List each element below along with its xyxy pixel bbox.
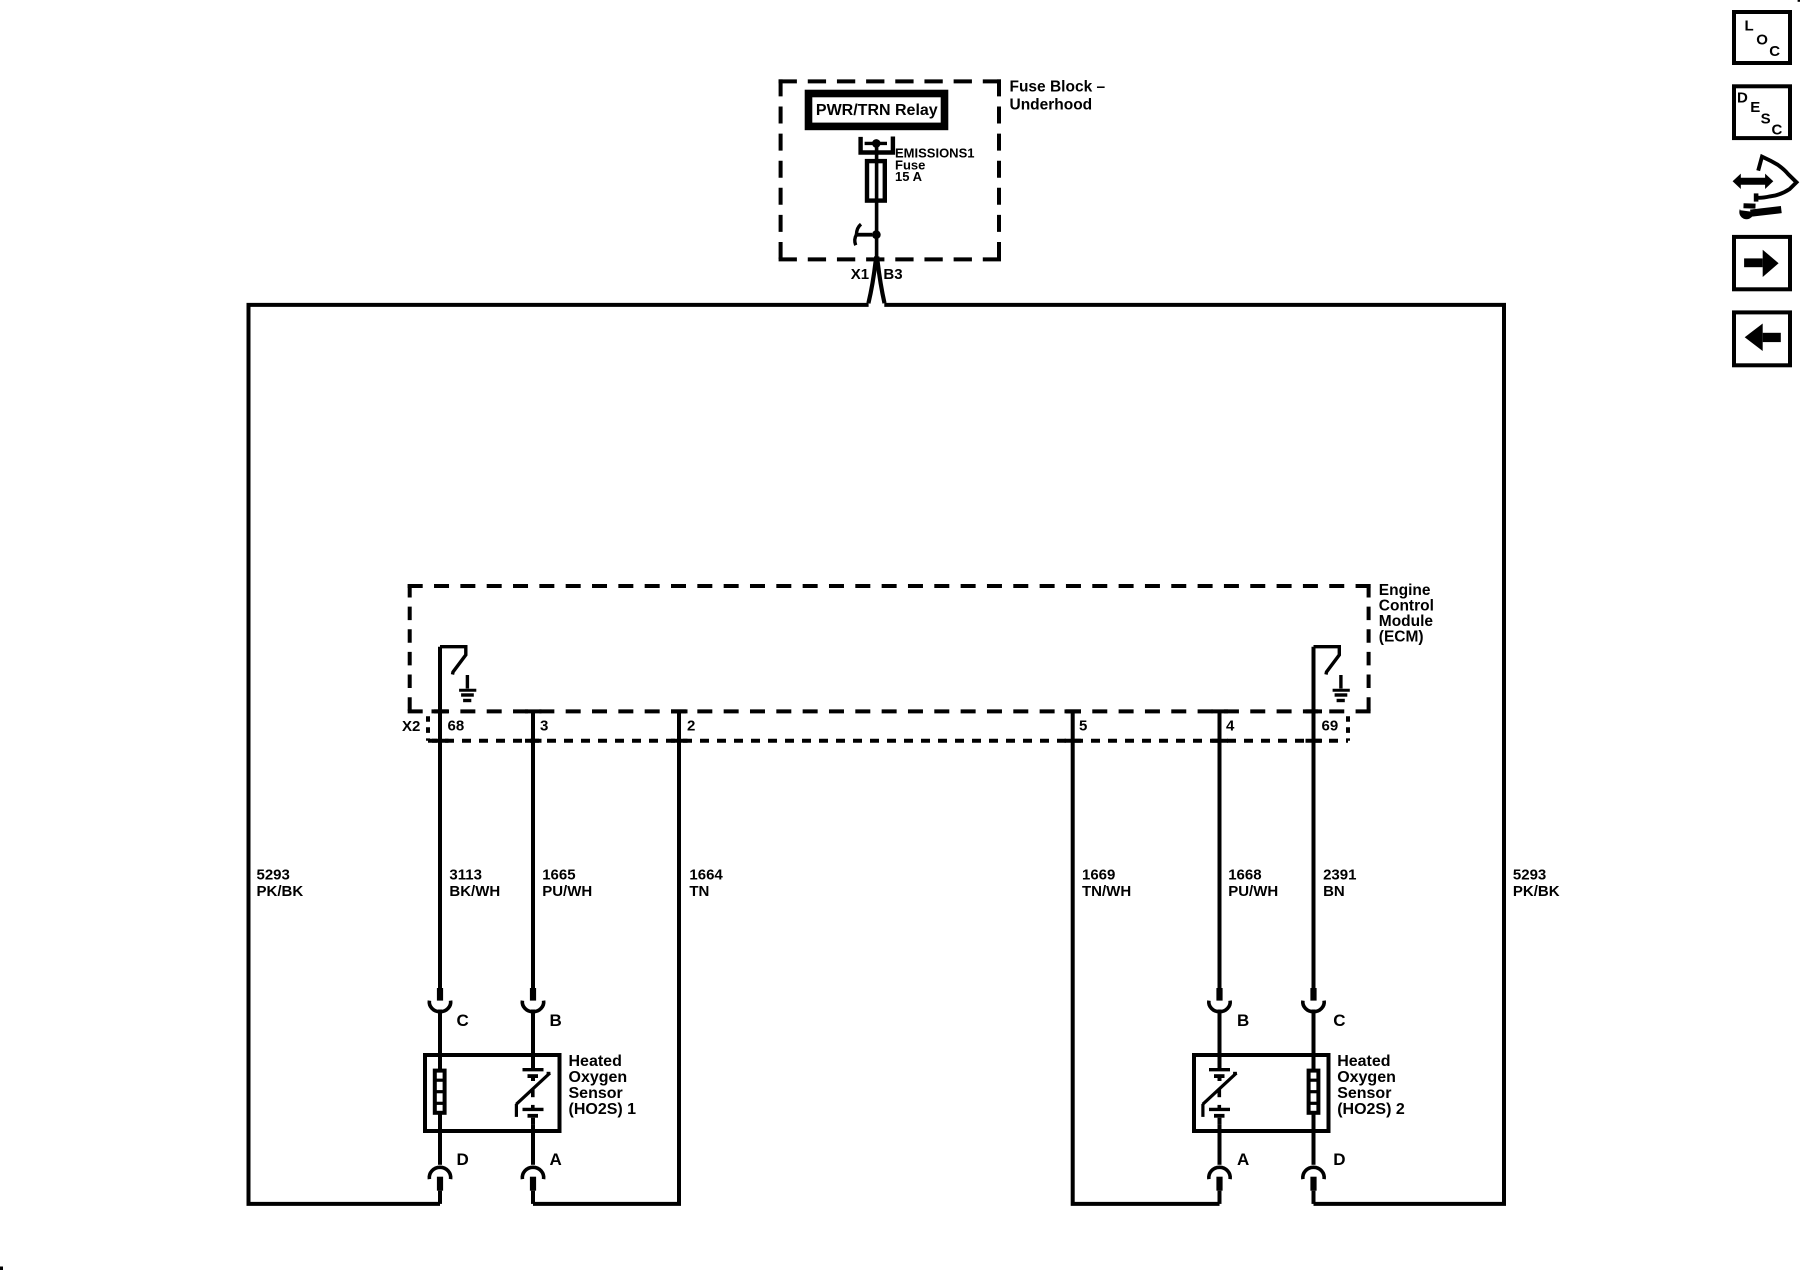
svg-text:Fuse Block –: Fuse Block – — [1010, 79, 1106, 96]
heater element (HO2S2) — [1309, 1071, 1319, 1113]
icon: forward arrow box — [1734, 237, 1790, 289]
svg-text:1668: 1668 — [1228, 867, 1261, 884]
svg-text:A: A — [1237, 1150, 1249, 1169]
svg-text:B3: B3 — [883, 266, 902, 283]
in-line connector terminal B (HO2S1) — [522, 988, 543, 1012]
svg-text:A: A — [550, 1150, 562, 1169]
svg-text:2: 2 — [687, 718, 695, 735]
wire: relay terminal down through fuse to connector — [875, 143, 879, 259]
ECM internal circuit bracket (left, pin 68) — [440, 647, 466, 675]
in-line connector terminal B (HO2S2) — [1209, 988, 1230, 1012]
svg-text:L: L — [1745, 18, 1754, 35]
heater element (HO2S1) — [435, 1071, 445, 1113]
svg-text:(HO2S) 2: (HO2S) 2 — [1337, 1101, 1405, 1118]
fuse F: EMISSIONS1 Fuse 15 A — [867, 161, 885, 201]
svg-text:D: D — [457, 1150, 469, 1169]
svg-text:D: D — [1333, 1150, 1345, 1169]
in-line connector terminal A (HO2S2) — [1209, 1167, 1230, 1204]
svg-text:5: 5 — [1079, 718, 1087, 735]
svg-text:Sensor: Sensor — [569, 1085, 623, 1102]
svg-text:O: O — [1756, 31, 1768, 48]
svg-text:1669: 1669 — [1082, 867, 1115, 884]
wire: 3113 BK/WH (pin 68 down to HO2S1 C) — [438, 647, 442, 989]
svg-text:PWR/TRN Relay: PWR/TRN Relay — [816, 102, 938, 119]
svg-text:Sensor: Sensor — [1337, 1085, 1391, 1102]
label: Engine Control Module (ECM) — [1379, 582, 1434, 645]
HO2S1: Heated Oxygen Sensor box — [425, 1055, 560, 1131]
svg-text:B: B — [550, 1011, 562, 1030]
svg-text:1664: 1664 — [689, 867, 723, 884]
wire: cell to A terminal — [531, 1125, 535, 1165]
svg-text:TN/WH: TN/WH — [1082, 883, 1131, 900]
wire: 5293 PK/BK right loop (top rail right, right edge, bottom right) — [884, 305, 1504, 1204]
wire: 5293 PK/BK left loop (top rail left, left edge, bottom left) — [249, 305, 869, 1204]
in-line connector terminal D (HO2S2) — [1303, 1167, 1324, 1204]
wire label: 1665 PU/WH — [542, 867, 592, 900]
svg-text:3113: 3113 — [449, 867, 482, 884]
fuse block - underhood (dashed outline) — [779, 79, 1001, 259]
wire: 1665 PU/WH (pin 3 down to HO2S1 B) — [531, 712, 535, 989]
wire: 2391 BN (pin 69 down to HO2S2 C) — [1312, 647, 1316, 989]
svg-text:TN: TN — [689, 883, 709, 900]
in-line connector terminal C (HO2S1) — [429, 988, 450, 1012]
connector stub below fuse block — [874, 256, 879, 264]
sensor cell element (HO2S2) — [1203, 1070, 1237, 1117]
svg-text:D: D — [1737, 89, 1748, 106]
wire: B terminal to HO2S1 box — [531, 1010, 535, 1069]
icon: DESC box — [1734, 86, 1790, 138]
svg-text:(ECM): (ECM) — [1379, 628, 1424, 645]
svg-text:Oxygen: Oxygen — [569, 1069, 628, 1086]
icon: LOC box — [1734, 12, 1790, 63]
svg-text:X1: X1 — [851, 266, 869, 283]
svg-text:C: C — [1772, 122, 1783, 139]
icon: back arrow box — [1734, 312, 1790, 365]
svg-text:15 A: 15 A — [895, 169, 923, 184]
sensor cell element (HO2S1) — [516, 1070, 550, 1117]
wire label: 1669 TN/WH — [1082, 867, 1131, 900]
connector X1 pin B3 (tent symbol) — [868, 262, 884, 304]
wire: C terminal to HO2S1 box — [438, 1010, 442, 1071]
ECM internal circuit bracket (right, pin 69) — [1314, 647, 1340, 675]
wire: B terminal to HO2S2 box — [1218, 1010, 1222, 1069]
svg-text:C: C — [1769, 43, 1780, 60]
svg-text:Underhood: Underhood — [1010, 97, 1093, 114]
wire: 1664 TN (pin 2 down and across to HO2S1 A) — [533, 712, 679, 1204]
svg-text:Oxygen: Oxygen — [1337, 1069, 1396, 1086]
wire: C terminal to HO2S2 box — [1312, 1010, 1316, 1071]
svg-text:68: 68 — [448, 718, 465, 735]
page mark top-right — [1798, 0, 1800, 2]
wire: 1668 PU/WH (pin 4 down to HO2S2 B) — [1218, 712, 1222, 989]
svg-text:1665: 1665 — [542, 867, 575, 884]
wire label: 1664 TN — [689, 867, 723, 900]
wire: heater to D terminal (HO2S2) — [1312, 1113, 1316, 1165]
wire label: 5293 PK/BK (left) — [257, 867, 304, 900]
in-line connector terminal A (HO2S1) — [522, 1167, 543, 1204]
svg-text:E: E — [1750, 99, 1760, 116]
svg-text:(HO2S) 1: (HO2S) 1 — [569, 1101, 637, 1118]
wire: 1669 TN/WH (pin 5 down and across to HO2S2 A) — [1073, 712, 1220, 1204]
svg-text:S: S — [1761, 111, 1771, 128]
svg-text:3: 3 — [540, 718, 548, 735]
label: Heated Oxygen Sensor (HO2S) 1 — [569, 1053, 637, 1118]
wire label: 5293 PK/BK (right) — [1513, 867, 1560, 900]
svg-text:5293: 5293 — [1513, 867, 1546, 884]
ground symbol (right, inside ECM) — [1333, 675, 1350, 701]
relay: PWR/TRN Relay box — [809, 94, 945, 127]
label: X1 B3 — [851, 266, 903, 283]
label: Fuse Block - Underhood — [1010, 79, 1106, 114]
fuse block clip (squiggle) connection — [855, 224, 872, 245]
label: EMISSIONS1 Fuse 15 A — [895, 146, 974, 184]
svg-text:4: 4 — [1226, 718, 1235, 735]
svg-text:PU/WH: PU/WH — [542, 883, 592, 900]
svg-text:Heated: Heated — [569, 1053, 622, 1070]
HO2S2: Heated Oxygen Sensor box — [1194, 1055, 1329, 1131]
svg-text:69: 69 — [1322, 718, 1339, 735]
page mark bottom-left — [0, 1267, 3, 1271]
in-line connector terminal D (HO2S1) — [429, 1167, 450, 1204]
svg-text:C: C — [457, 1011, 469, 1030]
svg-text:5293: 5293 — [257, 867, 290, 884]
svg-text:BN: BN — [1323, 883, 1345, 900]
svg-text:Heated: Heated — [1337, 1053, 1390, 1070]
in-line connector terminal C (HO2S2) — [1303, 988, 1324, 1012]
svg-text:PK/BK: PK/BK — [257, 883, 304, 900]
svg-text:2391: 2391 — [1323, 867, 1356, 884]
svg-text:B: B — [1237, 1011, 1249, 1030]
icon: repair/replace (double arrow, loop, wrench) — [1733, 157, 1797, 220]
wire: heater to D terminal — [438, 1113, 442, 1165]
svg-text:C: C — [1333, 1011, 1345, 1030]
svg-text:BK/WH: BK/WH — [449, 883, 500, 900]
fuse holder clip terminal — [861, 137, 893, 153]
svg-text:PU/WH: PU/WH — [1228, 883, 1278, 900]
svg-text:X2: X2 — [402, 718, 420, 735]
wire label: 1668 PU/WH — [1228, 867, 1278, 900]
junction dot at fuse block internal connection — [872, 230, 881, 239]
terminal junction dot — [872, 139, 881, 148]
label: Heated Oxygen Sensor (HO2S) 2 — [1337, 1053, 1405, 1118]
svg-text:PK/BK: PK/BK — [1513, 883, 1560, 900]
wire label: 2391 BN — [1323, 867, 1356, 900]
connector X2 pin row (dotted) — [428, 711, 1348, 740]
ECM: Engine Control Module dashed box — [408, 584, 1371, 711]
ground symbol (left, inside ECM) — [459, 675, 476, 701]
wire label: 3113 BK/WH — [449, 867, 500, 900]
wire: cell to A terminal (HO2S2) — [1218, 1125, 1222, 1165]
